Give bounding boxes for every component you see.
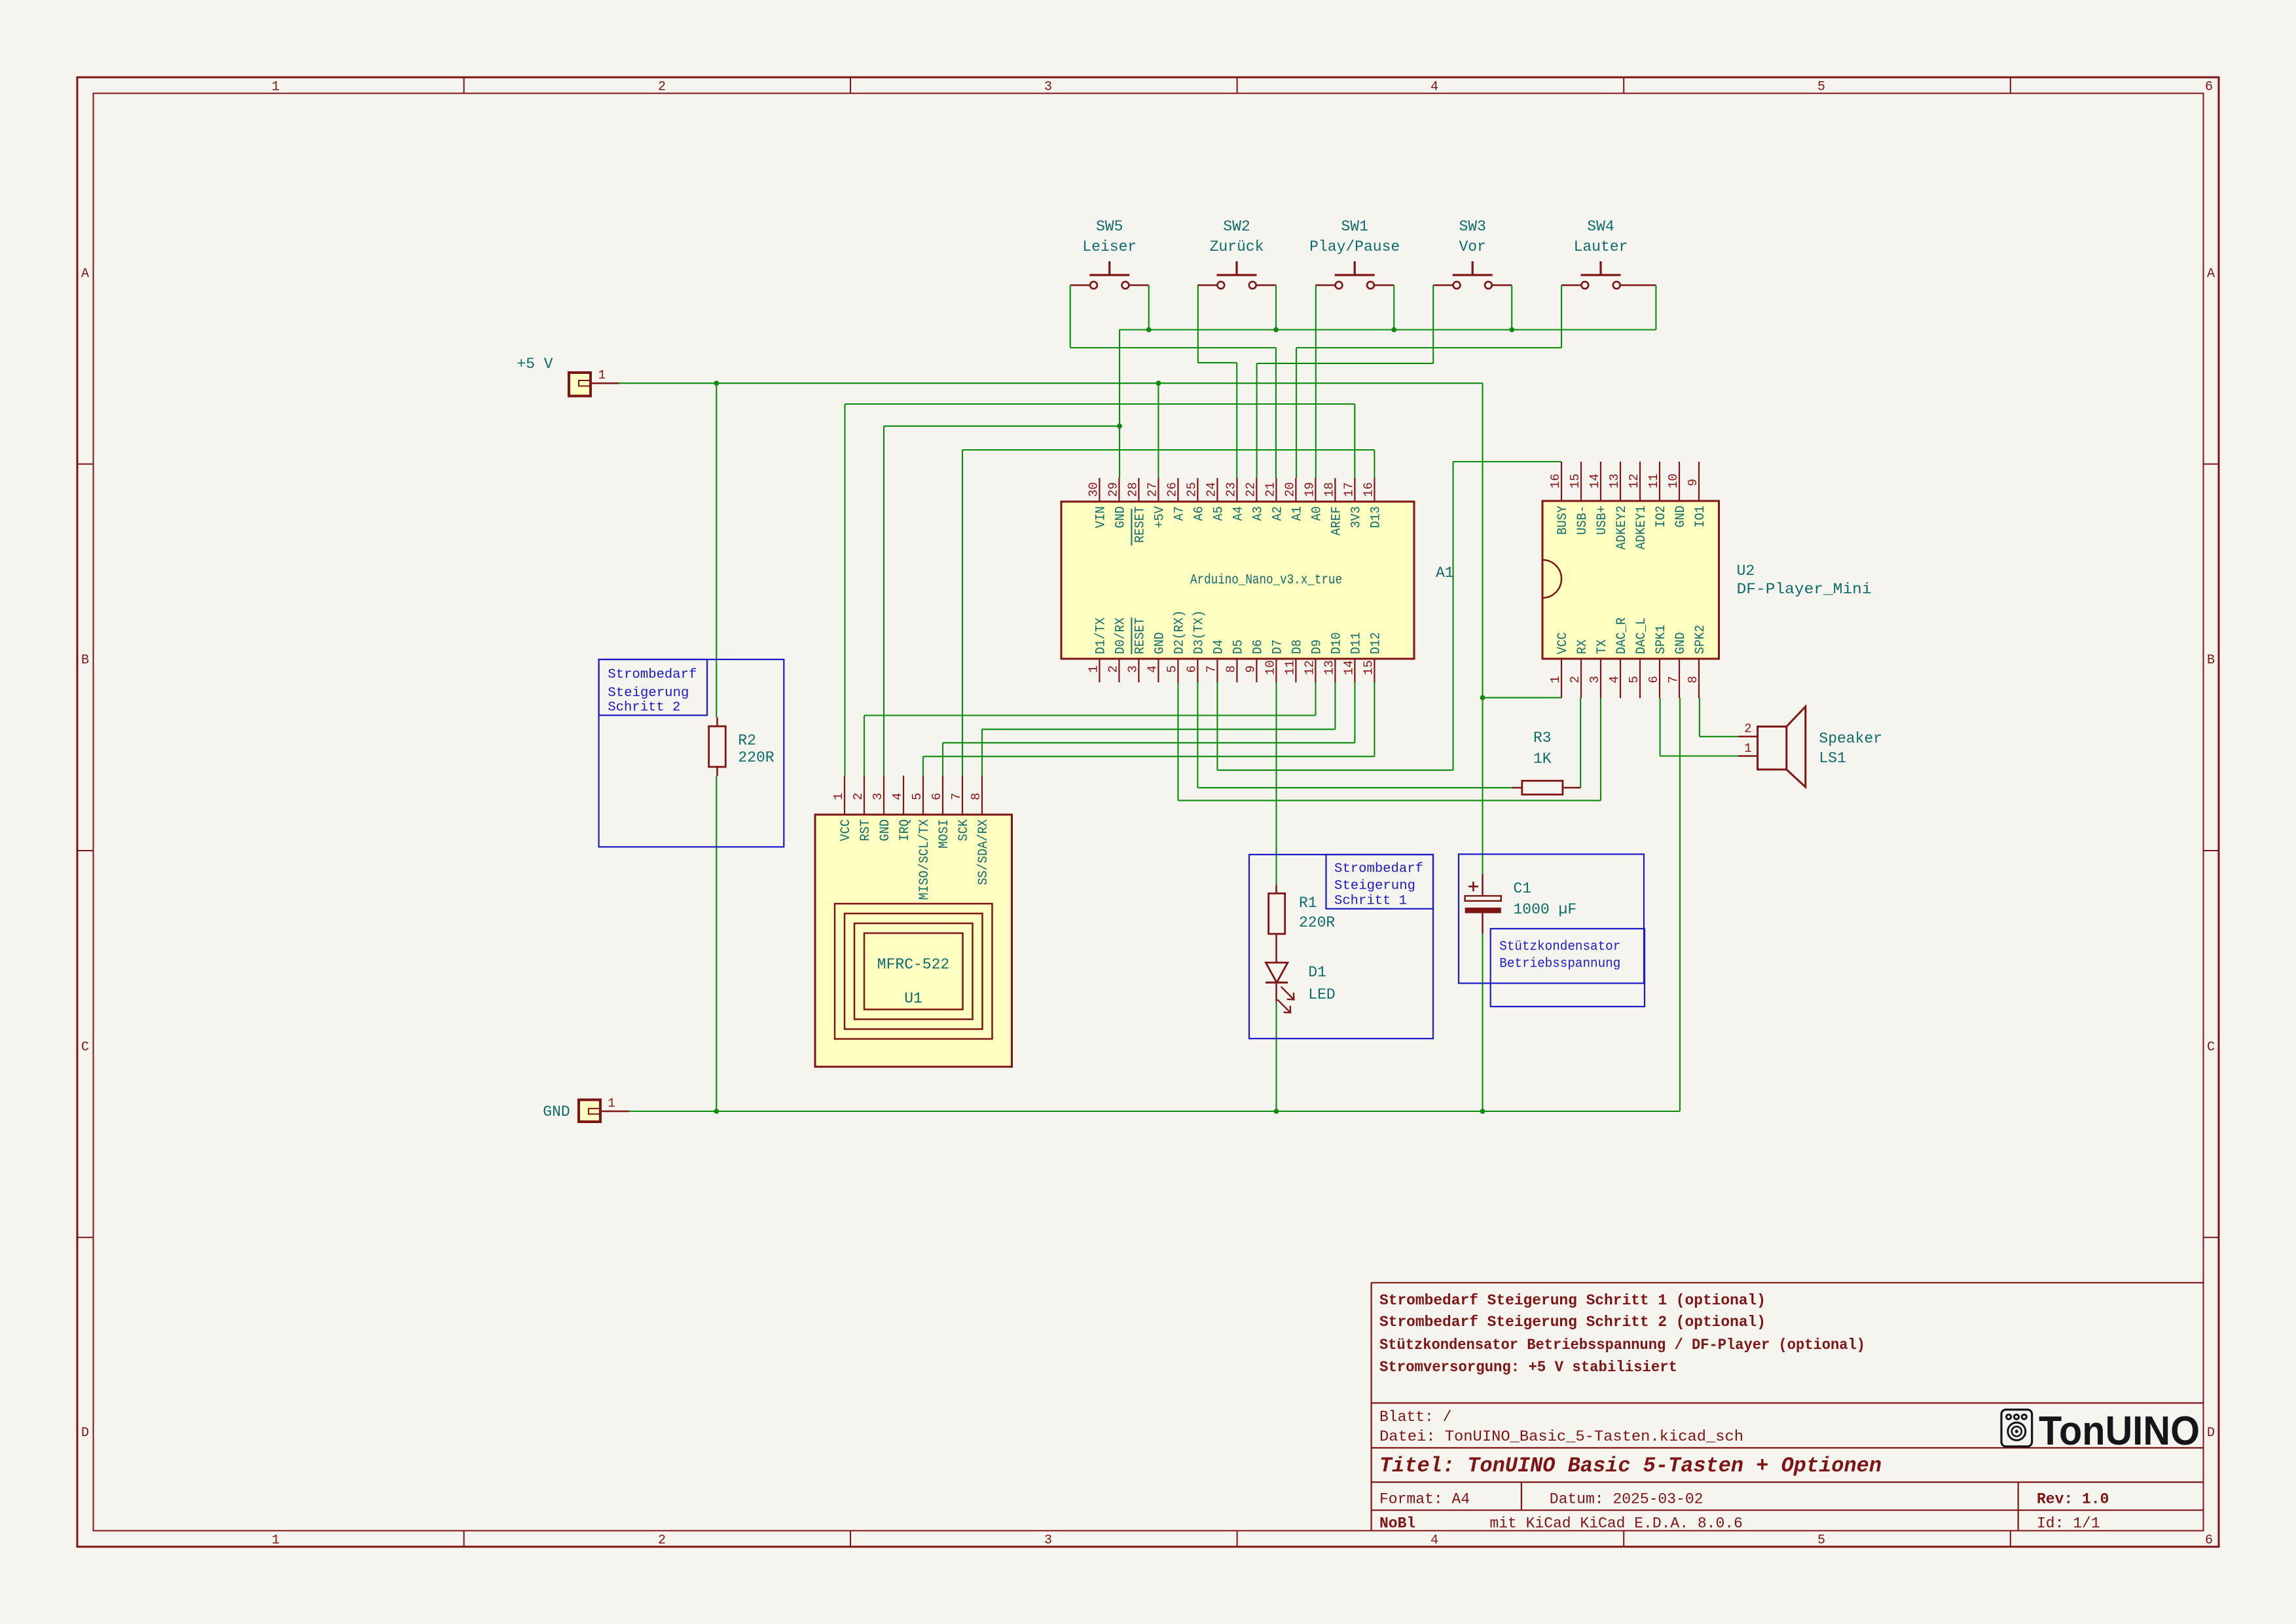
svg-text:MISO/SCL/TX: MISO/SCL/TX [917,819,932,900]
pin 7 SCK [962,776,963,815]
svg-text:VIN: VIN [1093,506,1108,528]
svg-text:1: 1 [1086,665,1101,673]
wire R3 to DF RX [1580,698,1581,788]
svg-text:Id: 1/1: Id: 1/1 [2037,1515,2100,1532]
svg-text:Blatt: /: Blatt: / [1379,1409,1451,1426]
svg-text:TX: TX [1595,640,1610,654]
svg-text:D9: D9 [1309,640,1324,654]
svg-text:ADKEY2: ADKEY2 [1614,506,1630,549]
svg-text:D6: D6 [1250,640,1266,654]
svg-text:Stromversorgung: +5 V stabilis: Stromversorgung: +5 V stabilisiert [1379,1359,1677,1376]
svg-text:Datum: 2025-03-02: Datum: 2025-03-02 [1550,1491,1704,1508]
svg-text:C1: C1 [1514,880,1532,897]
svg-text:20: 20 [1283,482,1297,497]
svg-text:6: 6 [2205,1533,2213,1548]
note box Stuetzkondensator Betriebsspannung [1459,854,1645,1006]
svg-text:D: D [81,1426,89,1441]
junction GND rail / LED [1274,1109,1279,1114]
junction SW5 right pin on GND bus [1146,327,1152,333]
svg-text:+5 V: +5 V [517,356,553,373]
junction +5V / Arduino pin27 [1156,380,1161,386]
svg-text:220R: 220R [738,749,774,766]
svg-text:2: 2 [851,793,866,800]
wire GND rail [629,1111,1680,1112]
svg-text:14: 14 [1341,660,1356,675]
wire SW1 to A0 [1315,286,1317,479]
svg-text:21: 21 [1263,482,1277,497]
switch SW2 (Zurück) [1197,218,1276,289]
svg-text:24: 24 [1204,482,1218,497]
wire RST D9 to MFRC RST [864,682,1316,776]
TonUINO logo [2001,1409,2200,1454]
svg-text:SW4: SW4 [1587,218,1614,235]
pin 8 D5 (bottom) [1236,659,1237,682]
wire 3V3 to MFRC VCC [845,404,1355,776]
pin 6 D3(TX) (bottom) [1197,659,1198,682]
svg-text:Strombedarf: Strombedarf [1334,862,1423,877]
pin 10 GND (top) [1679,462,1680,501]
svg-text:2: 2 [658,1533,666,1548]
svg-text:A: A [81,267,89,282]
svg-text:LS1: LS1 [1819,750,1846,767]
svg-text:B: B [2207,653,2215,668]
svg-text:4: 4 [1145,665,1159,673]
svg-text:Arduino_Nano_v3.x_true: Arduino_Nano_v3.x_true [1190,573,1342,588]
pin 22 A3 (top) [1256,478,1257,502]
svg-text:AREF: AREF [1329,506,1344,536]
pin 13 ADKEY2 (top) [1620,462,1621,501]
svg-text:18: 18 [1322,482,1336,497]
svg-text:SCK: SCK [957,819,972,841]
svg-text:R2: R2 [738,732,756,749]
svg-text:23: 23 [1224,482,1238,497]
svg-text:10: 10 [1263,660,1277,675]
svg-text:13: 13 [1607,473,1622,489]
svg-text:5: 5 [910,793,924,800]
svg-text:U1: U1 [904,990,922,1007]
svg-text:DAC_R: DAC_R [1614,618,1630,654]
switch SW5 (Leiser) [1070,218,1149,289]
wire MISO D12 to MFRC MISO [923,682,1374,776]
svg-text:8: 8 [1686,676,1700,683]
pin 3 GND [883,776,884,815]
pin 16 BUSY (top) [1561,462,1562,501]
pin 9 IO1 (top) [1698,462,1700,501]
svg-text:Play/Pause: Play/Pause [1309,238,1400,255]
svg-text:D1/TX: D1/TX [1093,618,1108,654]
pin 21 A2 (top) [1275,478,1277,502]
resistor R1 220R [1269,885,1336,963]
svg-text:3: 3 [1044,80,1052,95]
wire DF SPK2 to speaker pin2 [1700,698,1738,737]
pin 26 A7 (top) [1177,478,1178,502]
svg-text:A4: A4 [1231,506,1246,521]
svg-text:Schritt 2: Schritt 2 [608,700,680,715]
pin 4 GND (bottom) [1157,659,1159,682]
pin 15 D12 (bottom) [1374,659,1375,682]
svg-text:16: 16 [1361,482,1376,497]
svg-text:Vor: Vor [1459,238,1485,255]
pin 18 AREF (top) [1334,478,1336,502]
svg-text:RESET: RESET [1133,506,1148,543]
svg-text:28: 28 [1125,482,1140,497]
wire DF GND down [1679,698,1681,1111]
pin 5 DAC_L (bottom) [1639,659,1641,698]
svg-text:SPK2: SPK2 [1693,625,1708,654]
svg-text:6: 6 [1184,665,1199,673]
pin 2 D0/RX (bottom) [1118,659,1120,682]
svg-text:2: 2 [1744,722,1751,736]
IC A1 Arduino_Nano_v3.x_true [1061,478,1454,682]
pin 29 GND (top) [1118,478,1120,502]
svg-text:GND: GND [543,1103,570,1120]
wire GND from MFRC pin3 to Arduino GND column [884,426,1120,776]
svg-text:+5V: +5V [1152,506,1167,528]
svg-text:DAC_L: DAC_L [1634,618,1649,654]
svg-text:D8: D8 [1290,640,1305,654]
pin 5 D2(RX) (bottom) [1177,659,1178,682]
pin 4 IRQ [903,776,904,815]
svg-text:IO1: IO1 [1693,506,1708,528]
pin 14 USB+ (top) [1600,462,1601,501]
pin 19 A0 (top) [1315,478,1316,502]
pin 2 [1738,736,1758,738]
wire DF SPK1 to speaker pin1 [1660,698,1738,756]
svg-text:11: 11 [1283,660,1297,675]
svg-text:15: 15 [1568,473,1582,489]
svg-text:Schritt 1: Schritt 1 [1334,894,1407,909]
pin 4 DAC_R (bottom) [1620,659,1621,698]
pin 3 TX (bottom) [1600,659,1601,698]
svg-text:GND: GND [878,819,893,841]
svg-text:R3: R3 [1533,729,1552,747]
svg-text:GND: GND [1673,632,1688,654]
svg-text:D11: D11 [1349,632,1364,654]
switch SW3 (Vor) [1433,218,1512,289]
svg-text:26: 26 [1165,482,1179,497]
svg-text:B: B [81,653,89,668]
pin 7 GND (bottom) [1679,659,1680,698]
pin 12 D9 (bottom) [1315,659,1316,682]
junction GND rail / R2 [714,1109,719,1114]
svg-text:D12: D12 [1368,632,1383,654]
svg-text:BUSY: BUSY [1556,506,1571,535]
IC U1 MFRC-522 [815,776,1012,1067]
pin 1 VCC [844,776,845,815]
svg-text:15: 15 [1361,660,1376,675]
pin 1 VCC (bottom) [1561,659,1562,698]
junction +5V / DF-Player VCC branch [1480,695,1485,701]
svg-text:6: 6 [1647,676,1661,683]
wire C1 bottom to GND rail [1482,934,1483,1111]
svg-text:1: 1 [831,793,846,800]
svg-text:GND: GND [1113,506,1128,528]
svg-text:9: 9 [1243,665,1258,673]
note box Strombedarf Steigerung Schritt 1 [1249,855,1433,1039]
pin 3 RESET (bottom) [1138,659,1139,682]
svg-text:2: 2 [658,80,666,95]
note box Strombedarf Steigerung Schritt 2 [599,659,784,847]
svg-text:Leiser: Leiser [1082,238,1137,255]
pin 28 RESET (top) [1138,478,1139,502]
svg-text:LED: LED [1308,986,1335,1003]
pin 20 A1 (top) [1295,478,1296,502]
svg-text:5: 5 [1165,665,1179,673]
svg-text:4: 4 [1430,1533,1438,1548]
pin 1 [1738,755,1758,757]
svg-text:Strombedarf Steigerung Schritt: Strombedarf Steigerung Schritt 1 (option… [1379,1292,1766,1309]
pin 2 RST [864,776,865,815]
svg-text:6: 6 [2205,80,2213,95]
svg-text:12: 12 [1627,473,1641,489]
svg-text:Steigerung: Steigerung [1334,879,1415,894]
svg-text:4: 4 [1430,80,1438,95]
svg-text:D2(RX): D2(RX) [1172,610,1187,654]
svg-text:SW1: SW1 [1341,218,1368,235]
svg-text:A: A [2207,267,2215,282]
switch SW1 (Play/Pause) [1309,218,1400,289]
svg-text:IO2: IO2 [1654,506,1669,528]
pin 14 D11 (bottom) [1354,659,1355,682]
pin 10 D7 (bottom) [1275,659,1277,682]
svg-text:1K: 1K [1533,750,1552,767]
svg-text:1: 1 [1548,676,1563,683]
svg-text:SS/SDA/RX: SS/SDA/RX [976,819,991,885]
pin 15 USB- (top) [1580,462,1582,501]
svg-text:16: 16 [1548,473,1563,489]
pin 1 D1/TX (bottom) [1099,659,1100,682]
wire +5V rail [619,383,1561,874]
svg-text:Zurück: Zurück [1210,238,1264,255]
svg-text:Steigerung: Steigerung [608,686,689,701]
antenna coil [835,904,993,1039]
pin 8 SPK2 (bottom) [1698,659,1700,698]
svg-text:Strombedarf Steigerung Schritt: Strombedarf Steigerung Schritt 2 (option… [1379,1314,1766,1331]
svg-text:5: 5 [1627,676,1641,683]
svg-text:DF-Player_Mini: DF-Player_Mini [1737,581,1872,598]
svg-text:D3(TX): D3(TX) [1192,610,1207,654]
svg-text:1: 1 [272,1533,280,1548]
junction +5V / R2 [714,380,719,386]
wire GND bus under switches [1120,286,1656,479]
svg-text:mit KiCad KiCad E.D.A. 8.0.6: mit KiCad KiCad E.D.A. 8.0.6 [1489,1515,1742,1532]
svg-text:A0: A0 [1309,506,1324,521]
pin 6 SPK1 (bottom) [1659,659,1660,698]
pin 27 +5V (top) [1157,478,1159,502]
pin 5 MISO/SCL/TX [922,776,924,815]
svg-text:1: 1 [272,80,280,95]
pin 23 A4 (top) [1236,478,1237,502]
LED D1 [1266,963,1336,1012]
svg-text:Stützkondensator: Stützkondensator [1499,940,1620,955]
wire SW2 to A4 [1198,286,1237,479]
junction GND rail / C1 [1480,1109,1485,1114]
svg-text:U2: U2 [1737,563,1755,580]
wire D3 TX to R3 [1197,682,1512,788]
svg-text:29: 29 [1106,482,1120,497]
svg-text:1: 1 [598,368,606,382]
svg-text:13: 13 [1322,660,1336,675]
wire R2 bottom to GND rail [716,776,717,1111]
svg-text:A3: A3 [1250,506,1266,521]
pin 11 D8 (bottom) [1295,659,1296,682]
svg-text:GND: GND [1152,632,1167,654]
svg-text:D13: D13 [1368,506,1383,528]
pin 8 SS/SDA/RX [981,776,983,815]
svg-text:Lauter: Lauter [1574,238,1628,255]
pin 25 A6 (top) [1197,478,1198,502]
wire MOSI D11 to MFRC MOSI [943,682,1355,776]
svg-text:RX: RX [1575,640,1590,654]
svg-text:C: C [2207,1040,2215,1055]
svg-text:USB-: USB- [1575,506,1590,535]
svg-text:30: 30 [1086,482,1101,497]
svg-text:22: 22 [1243,482,1258,497]
wire SCK D13 to MFRC SCK [962,450,1374,776]
svg-text:3: 3 [871,793,885,800]
svg-text:19: 19 [1302,482,1317,497]
pin 17 3V3 (top) [1354,478,1355,502]
svg-text:RST: RST [858,819,873,841]
wire D2 RX from DF TX [1178,682,1601,800]
svg-text:Betriebsspannung: Betriebsspannung [1499,957,1620,972]
pin 11 IO2 (top) [1659,462,1660,501]
junction SW2 right pin on GND bus [1273,327,1279,333]
title block [1372,1283,2204,1532]
svg-text:7: 7 [949,793,964,800]
svg-text:9: 9 [1686,479,1700,486]
svg-text:Strombedarf: Strombedarf [608,667,697,682]
pin 2 RX (bottom) [1580,659,1582,698]
svg-text:14: 14 [1588,473,1602,489]
svg-text:11: 11 [1647,473,1661,489]
svg-text:220R: 220R [1299,914,1335,931]
pin 9 D6 (bottom) [1256,659,1257,682]
svg-text:C: C [81,1040,89,1055]
svg-text:8: 8 [969,793,983,800]
svg-text:12: 12 [1302,660,1317,675]
svg-text:D10: D10 [1329,632,1344,654]
junction SW3 right pin on GND bus [1509,327,1514,333]
wire SW4 to A1 [1296,286,1561,479]
svg-text:MFRC-522: MFRC-522 [877,956,949,973]
svg-text:D7: D7 [1270,640,1285,654]
svg-text:TonUINO: TonUINO [2039,1409,2200,1454]
svg-text:17: 17 [1341,482,1356,497]
svg-text:R1: R1 [1299,895,1317,912]
wire LED cathode to GND rail [1275,1002,1277,1111]
svg-text:Datei: TonUINO_Basic_5-Tasten.: Datei: TonUINO_Basic_5-Tasten.kicad_sch [1379,1428,1743,1445]
svg-text:1: 1 [608,1096,615,1111]
svg-text:A7: A7 [1172,506,1187,521]
junction GND bus / pin29 column [1117,424,1122,429]
svg-text:D0/RX: D0/RX [1113,618,1128,654]
svg-text:2: 2 [1106,665,1120,673]
svg-text:6: 6 [930,793,944,800]
svg-text:D4: D4 [1211,640,1226,654]
svg-text:A1: A1 [1436,564,1454,581]
svg-text:A6: A6 [1192,506,1207,521]
svg-text:25: 25 [1184,482,1199,497]
svg-text:8: 8 [1224,665,1238,673]
pin 30 VIN (top) [1099,478,1100,502]
svg-text:Rev: 1.0: Rev: 1.0 [2037,1491,2109,1508]
switch SW4 (Lauter) [1561,218,1656,289]
svg-text:1000 µF: 1000 µF [1514,901,1577,918]
svg-text:D: D [2207,1426,2215,1441]
resistor R3 1K [1512,729,1580,794]
wire SW3 to A3 [1257,286,1434,479]
svg-text:SW5: SW5 [1096,218,1123,235]
pin 24 A5 (top) [1216,478,1218,502]
svg-text:Stützkondensator Betriebsspann: Stützkondensator Betriebsspannung / DF-P… [1379,1337,1865,1354]
svg-text:7: 7 [1666,676,1681,683]
svg-text:Titel: TonUINO Basic 5-Tasten: Titel: TonUINO Basic 5-Tasten + Optionen [1379,1454,1882,1478]
svg-text:27: 27 [1145,482,1159,497]
wire SS D10 to MFRC SDA [982,682,1335,776]
svg-text:A5: A5 [1211,506,1226,521]
svg-text:A1: A1 [1290,506,1305,521]
svg-text:5: 5 [1817,1533,1825,1548]
svg-text:3: 3 [1588,676,1602,683]
pin 16 D13 (top) [1374,478,1375,502]
svg-text:SW3: SW3 [1459,218,1485,235]
pin 13 D10 (bottom) [1334,659,1336,682]
capacitor C1 1000uF [1465,874,1577,934]
svg-text:NoBl: NoBl [1379,1515,1415,1532]
power symbol +5V [517,356,619,396]
svg-text:Format: A4: Format: A4 [1379,1491,1470,1508]
power symbol GND [543,1096,629,1122]
svg-text:D1: D1 [1308,964,1326,981]
pin 6 MOSI [942,776,943,815]
svg-text:VCC: VCC [1556,632,1571,654]
svg-text:3V3: 3V3 [1349,506,1364,528]
resistor R2 220R [709,717,774,776]
wire SW5 to A2 [1070,286,1276,479]
svg-text:4: 4 [1607,676,1622,683]
junction SW1 right pin on GND bus [1391,327,1396,333]
svg-text:USB+: USB+ [1595,506,1610,535]
wire D4 to DF BUSY [1217,462,1561,770]
svg-text:IRQ: IRQ [898,819,913,841]
svg-text:MOSI: MOSI [937,819,952,849]
svg-text:ADKEY1: ADKEY1 [1634,506,1649,549]
pin 12 ADKEY1 (top) [1639,462,1641,501]
svg-text:Speaker: Speaker [1819,730,1882,747]
svg-text:A2: A2 [1270,506,1285,521]
svg-text:VCC: VCC [839,819,854,841]
svg-text:D5: D5 [1231,640,1246,654]
svg-text:3: 3 [1044,1533,1052,1548]
svg-text:5: 5 [1817,80,1825,95]
svg-text:RESET: RESET [1133,618,1148,654]
svg-text:7: 7 [1204,665,1218,673]
svg-text:1: 1 [1744,741,1751,756]
svg-text:4: 4 [890,793,905,800]
svg-text:GND: GND [1673,506,1688,528]
pin 7 D4 (bottom) [1216,659,1218,682]
speaker LS1 [1738,707,1882,787]
svg-text:SPK1: SPK1 [1654,625,1669,654]
IC U2 DF-Player_Mini [1542,462,1872,698]
svg-text:3: 3 [1125,665,1140,673]
svg-text:SW2: SW2 [1223,218,1250,235]
wire D7 to R1 [1275,682,1277,885]
svg-text:2: 2 [1568,676,1582,683]
svg-text:10: 10 [1666,473,1681,489]
